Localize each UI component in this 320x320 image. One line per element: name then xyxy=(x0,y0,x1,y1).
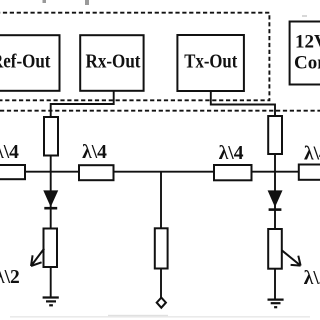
wire Tx-Out to right bias stub xyxy=(211,91,275,116)
wire center stub to antenna port xyxy=(160,269,162,298)
cropped text remnant top xyxy=(43,0,308,17)
diode D2 (right) xyxy=(268,191,282,210)
svg-text:λ\2: λ\2 xyxy=(0,267,20,288)
diode D1 (left) xyxy=(44,191,58,208)
svg-text:λ\2: λ\2 xyxy=(304,268,320,289)
bias stub upper left xyxy=(44,117,58,156)
antenna port diamond xyxy=(157,298,166,308)
ground (right) xyxy=(268,300,284,308)
box Ref-Out xyxy=(0,35,60,91)
wire right stub to ground xyxy=(274,269,276,299)
ground (left) xyxy=(43,298,59,306)
transmission line λ\4 (left edge, cut) xyxy=(0,142,25,179)
wire Rx-Out to left bias stub xyxy=(51,91,114,117)
transmission line λ\4 (right edge, cut) xyxy=(299,144,320,180)
cropped caption remnant bottom xyxy=(10,315,310,318)
svg-text:λ\4: λ\4 xyxy=(82,142,107,163)
wire center branch vertical xyxy=(160,172,162,229)
stub center (antenna feed) xyxy=(155,228,168,268)
box Tx-Out xyxy=(177,35,244,91)
transmission line λ\4 (third) xyxy=(214,143,252,180)
dashed enclosure box (switch module) xyxy=(0,13,269,101)
box Rx-Out xyxy=(80,35,143,91)
box 12V Control xyxy=(290,22,320,85)
svg-text:Control: Control xyxy=(294,53,320,74)
svg-text:λ\4: λ\4 xyxy=(0,142,19,163)
svg-text:Rx-Out: Rx-Out xyxy=(86,51,141,72)
wire left branch vertical xyxy=(50,156,52,229)
svg-text:12V: 12V xyxy=(295,32,320,53)
svg-text:Ref-Out: Ref-Out xyxy=(0,51,51,72)
tunable stub λ\2 (lower left) xyxy=(0,229,57,289)
svg-text:λ\4: λ\4 xyxy=(304,144,320,165)
wire right branch vertical xyxy=(274,154,276,229)
wire main bus line xyxy=(0,171,320,173)
svg-text:Tx-Out: Tx-Out xyxy=(184,51,237,72)
tunable stub λ\2 (lower right) xyxy=(268,229,320,289)
svg-text:λ\4: λ\4 xyxy=(219,143,244,164)
bias stub upper right xyxy=(268,116,282,154)
wire left stub to ground xyxy=(50,267,52,297)
transmission line λ\4 (second) xyxy=(79,142,114,180)
dashed bias network boundary line xyxy=(0,110,320,112)
